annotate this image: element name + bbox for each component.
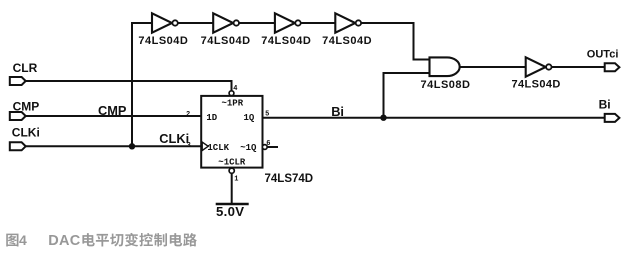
svg-text:6: 6 — [266, 140, 270, 148]
svg-text:1Q: 1Q — [244, 113, 255, 123]
svg-text:74LS04D: 74LS04D — [201, 35, 251, 47]
svg-text:74LS74D: 74LS74D — [265, 173, 314, 185]
svg-text:74LS04D: 74LS04D — [261, 35, 311, 47]
svg-text:4: 4 — [19, 232, 27, 248]
svg-text:4: 4 — [233, 85, 237, 93]
svg-text:CLKi: CLKi — [159, 131, 189, 146]
svg-text:CLKi: CLKi — [12, 126, 40, 140]
svg-text:~1CLR: ~1CLR — [218, 157, 246, 167]
svg-text:DAC: DAC — [48, 233, 81, 249]
svg-text:2: 2 — [186, 111, 190, 119]
svg-text:Bi: Bi — [599, 98, 611, 112]
svg-text:CMP: CMP — [98, 103, 127, 118]
svg-text:1D: 1D — [206, 113, 217, 123]
svg-text:1: 1 — [234, 176, 238, 184]
svg-text:Bi: Bi — [331, 104, 344, 119]
svg-text:74LS08D: 74LS08D — [421, 79, 471, 91]
svg-text:5.0V: 5.0V — [216, 204, 244, 219]
svg-text:~1PR: ~1PR — [222, 99, 244, 109]
svg-text:74LS04D: 74LS04D — [322, 35, 372, 47]
svg-text:~1Q: ~1Q — [240, 143, 257, 153]
svg-text:1CLK: 1CLK — [207, 143, 229, 153]
svg-text:3: 3 — [187, 142, 191, 150]
svg-text:74LS04D: 74LS04D — [138, 35, 188, 47]
svg-text:CLR: CLR — [13, 61, 38, 75]
svg-text:CMP: CMP — [13, 99, 40, 113]
svg-text:5: 5 — [265, 111, 269, 119]
svg-text:74LS04D: 74LS04D — [512, 79, 561, 91]
svg-text:OUTci: OUTci — [587, 49, 619, 61]
